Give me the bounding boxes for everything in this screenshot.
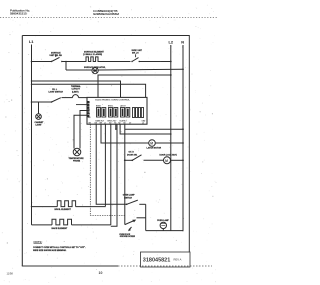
thermal cutout bump [62, 85, 88, 98]
bottom separator [22, 265, 118, 267]
wire L2 rail [170, 45, 172, 231]
svg-text:CONNECT OVEN WITH ALL CONTROLS: CONNECT OVEN WITH ALL CONTROLS SET TO "O… [33, 246, 86, 249]
svg-text:BAKE RLY: BAKE RLY [96, 120, 105, 123]
EOC left terminal stubs [76, 102, 91, 119]
wire light feed [32, 101, 52, 103]
header model text [93, 9, 119, 16]
lamp oven [157, 219, 170, 231]
svg-text:11/98: 11/98 [7, 272, 14, 276]
motor door lock [144, 154, 184, 164]
svg-text:PROBE: PROBE [73, 161, 81, 163]
svg-text:M: M [165, 159, 168, 163]
wire ground left drop [111, 124, 117, 226]
EOC bottom terminal labels [89, 123, 144, 125]
svg-text:DOOR SW.: DOOR SW. [127, 154, 138, 156]
wire latch feed to N [115, 124, 117, 129]
motor latch [101, 124, 184, 149]
wire L1 rail [31, 45, 33, 225]
svg-text:OV. D: OV. D [129, 152, 135, 154]
wire oven feed A [32, 81, 121, 97]
wire broil circuit [32, 206, 58, 208]
switch oven light [49, 89, 64, 103]
relay group 3 [120, 105, 130, 123]
part number box [141, 252, 191, 267]
svg-text:LATCH MOTOR: LATCH MOTOR [147, 146, 162, 149]
wire lamp drop [145, 204, 147, 230]
svg-text:SURFACE ELEMENT: SURFACE ELEMENT [84, 51, 104, 54]
ground arrow link [125, 218, 146, 225]
svg-text:5995431515: 5995431515 [10, 12, 27, 16]
svg-text:THERMAL: THERMAL [71, 85, 82, 88]
wire lamp bottom [146, 230, 183, 232]
svg-text:NOTE:: NOTE: [34, 240, 43, 244]
switch oven lamp [123, 194, 146, 206]
svg-text:LIGHT: LIGHT [36, 124, 43, 126]
switch surface unit RH [50, 52, 63, 63]
note block [33, 240, 86, 252]
svg-text:BROIL RLY: BROIL RLY [108, 121, 118, 123]
perforation dotted line [0, 17, 218, 19]
svg-text:929B49/2A2456M: 929B49/2A2456M [93, 12, 119, 16]
scan speckle [2, 5, 217, 283]
svg-text:L1: L1 [29, 40, 33, 44]
svg-text:UNIT SW. RH: UNIT SW. RH [50, 55, 63, 57]
resistor broil element [55, 201, 76, 212]
relay group 2 [108, 106, 118, 123]
wire indicator branch [65, 62, 67, 71]
wire aux to L2 [120, 124, 171, 134]
frame left [21, 36, 23, 267]
frame right [188, 36, 190, 253]
header publication text [10, 8, 30, 15]
temperature probe leads [80, 111, 87, 149]
svg-text:ELECTRONIC OVEN CONTROL: ELECTRONIC OVEN CONTROL [95, 100, 130, 102]
svg-text:N: N [181, 40, 184, 44]
svg-text:BROIL ELEMENT: BROIL ELEMENT [55, 209, 72, 211]
svg-text:SW. LH: SW. LH [132, 53, 139, 55]
resistor surface element [83, 51, 104, 62]
svg-text:318045821: 318045821 [143, 257, 171, 263]
wire bake to EOC [110, 124, 112, 225]
temperature probe [69, 148, 85, 162]
relay group 1 [96, 105, 106, 123]
frame top [22, 35, 189, 37]
wire chassis ground drop [124, 124, 126, 224]
resistor bake element [52, 219, 72, 230]
svg-text:M: M [150, 142, 153, 146]
controller box EOC [87, 97, 147, 124]
svg-text:BAKE ELEMENT: BAKE ELEMENT [52, 227, 69, 230]
svg-text:DOOR LOCK MOT.: DOOR LOCK MOT. [160, 154, 178, 156]
wire broil to EOC [76, 206, 106, 208]
svg-text:REV A: REV A [174, 258, 182, 262]
svg-text:10: 10 [99, 271, 103, 275]
wire door circuit [124, 159, 126, 161]
terminal strip EOC left edge [87, 101, 89, 117]
svg-text:GROUND SCREW: GROUND SCREW [120, 236, 135, 238]
svg-text:GND: GND [142, 121, 147, 123]
svg-text:TEMPERATURE: TEMPERATURE [69, 157, 85, 160]
lamp surface indicator [84, 66, 106, 74]
svg-text:WIRE SIZE SHOWN ARE MINIMUM.: WIRE SIZE SHOWN ARE MINIMUM. [33, 249, 67, 252]
svg-text:N: N [88, 106, 90, 108]
wire dead end dashed [90, 124, 125, 216]
svg-text:OV. L: OV. L [52, 89, 58, 91]
svg-text:L2: L2 [169, 40, 173, 44]
lamp cabinet light [35, 102, 45, 126]
switch door [127, 152, 142, 161]
svg-text:LIGHT SWITCH: LIGHT SWITCH [49, 92, 64, 94]
wire N rail [182, 45, 184, 231]
svg-text:SURFACE INDICATOR: SURFACE INDICATOR [84, 66, 106, 69]
svg-text:SURFACE: SURFACE [51, 52, 61, 55]
svg-text:DLB RLY: DLB RLY [120, 121, 128, 123]
junction dots on L1 rail [31, 80, 32, 81]
ground callout arrow [119, 227, 135, 238]
switch surface unit LH [131, 50, 142, 62]
svg-text:P2: P2 [88, 114, 90, 116]
wire EOC to L2 top [98, 75, 171, 97]
relay group 4 [133, 108, 147, 123]
wire bake circuit [32, 224, 53, 226]
svg-text:OVEN LAMP: OVEN LAMP [157, 219, 170, 222]
wire oven feed B [32, 84, 146, 97]
wire surface top [32, 61, 52, 63]
svg-text:L1: L1 [88, 102, 90, 104]
svg-text:CUTOUT: CUTOUT [72, 89, 81, 91]
svg-text:(1 SMALL 2 LARGE): (1 SMALL 2 LARGE) [83, 53, 102, 56]
svg-text:L2: L2 [142, 123, 144, 125]
wire oven lamp switch circuit [96, 124, 127, 204]
svg-text:LATCH: LATCH [120, 105, 126, 108]
svg-text:BROIL: BROIL [108, 106, 113, 108]
